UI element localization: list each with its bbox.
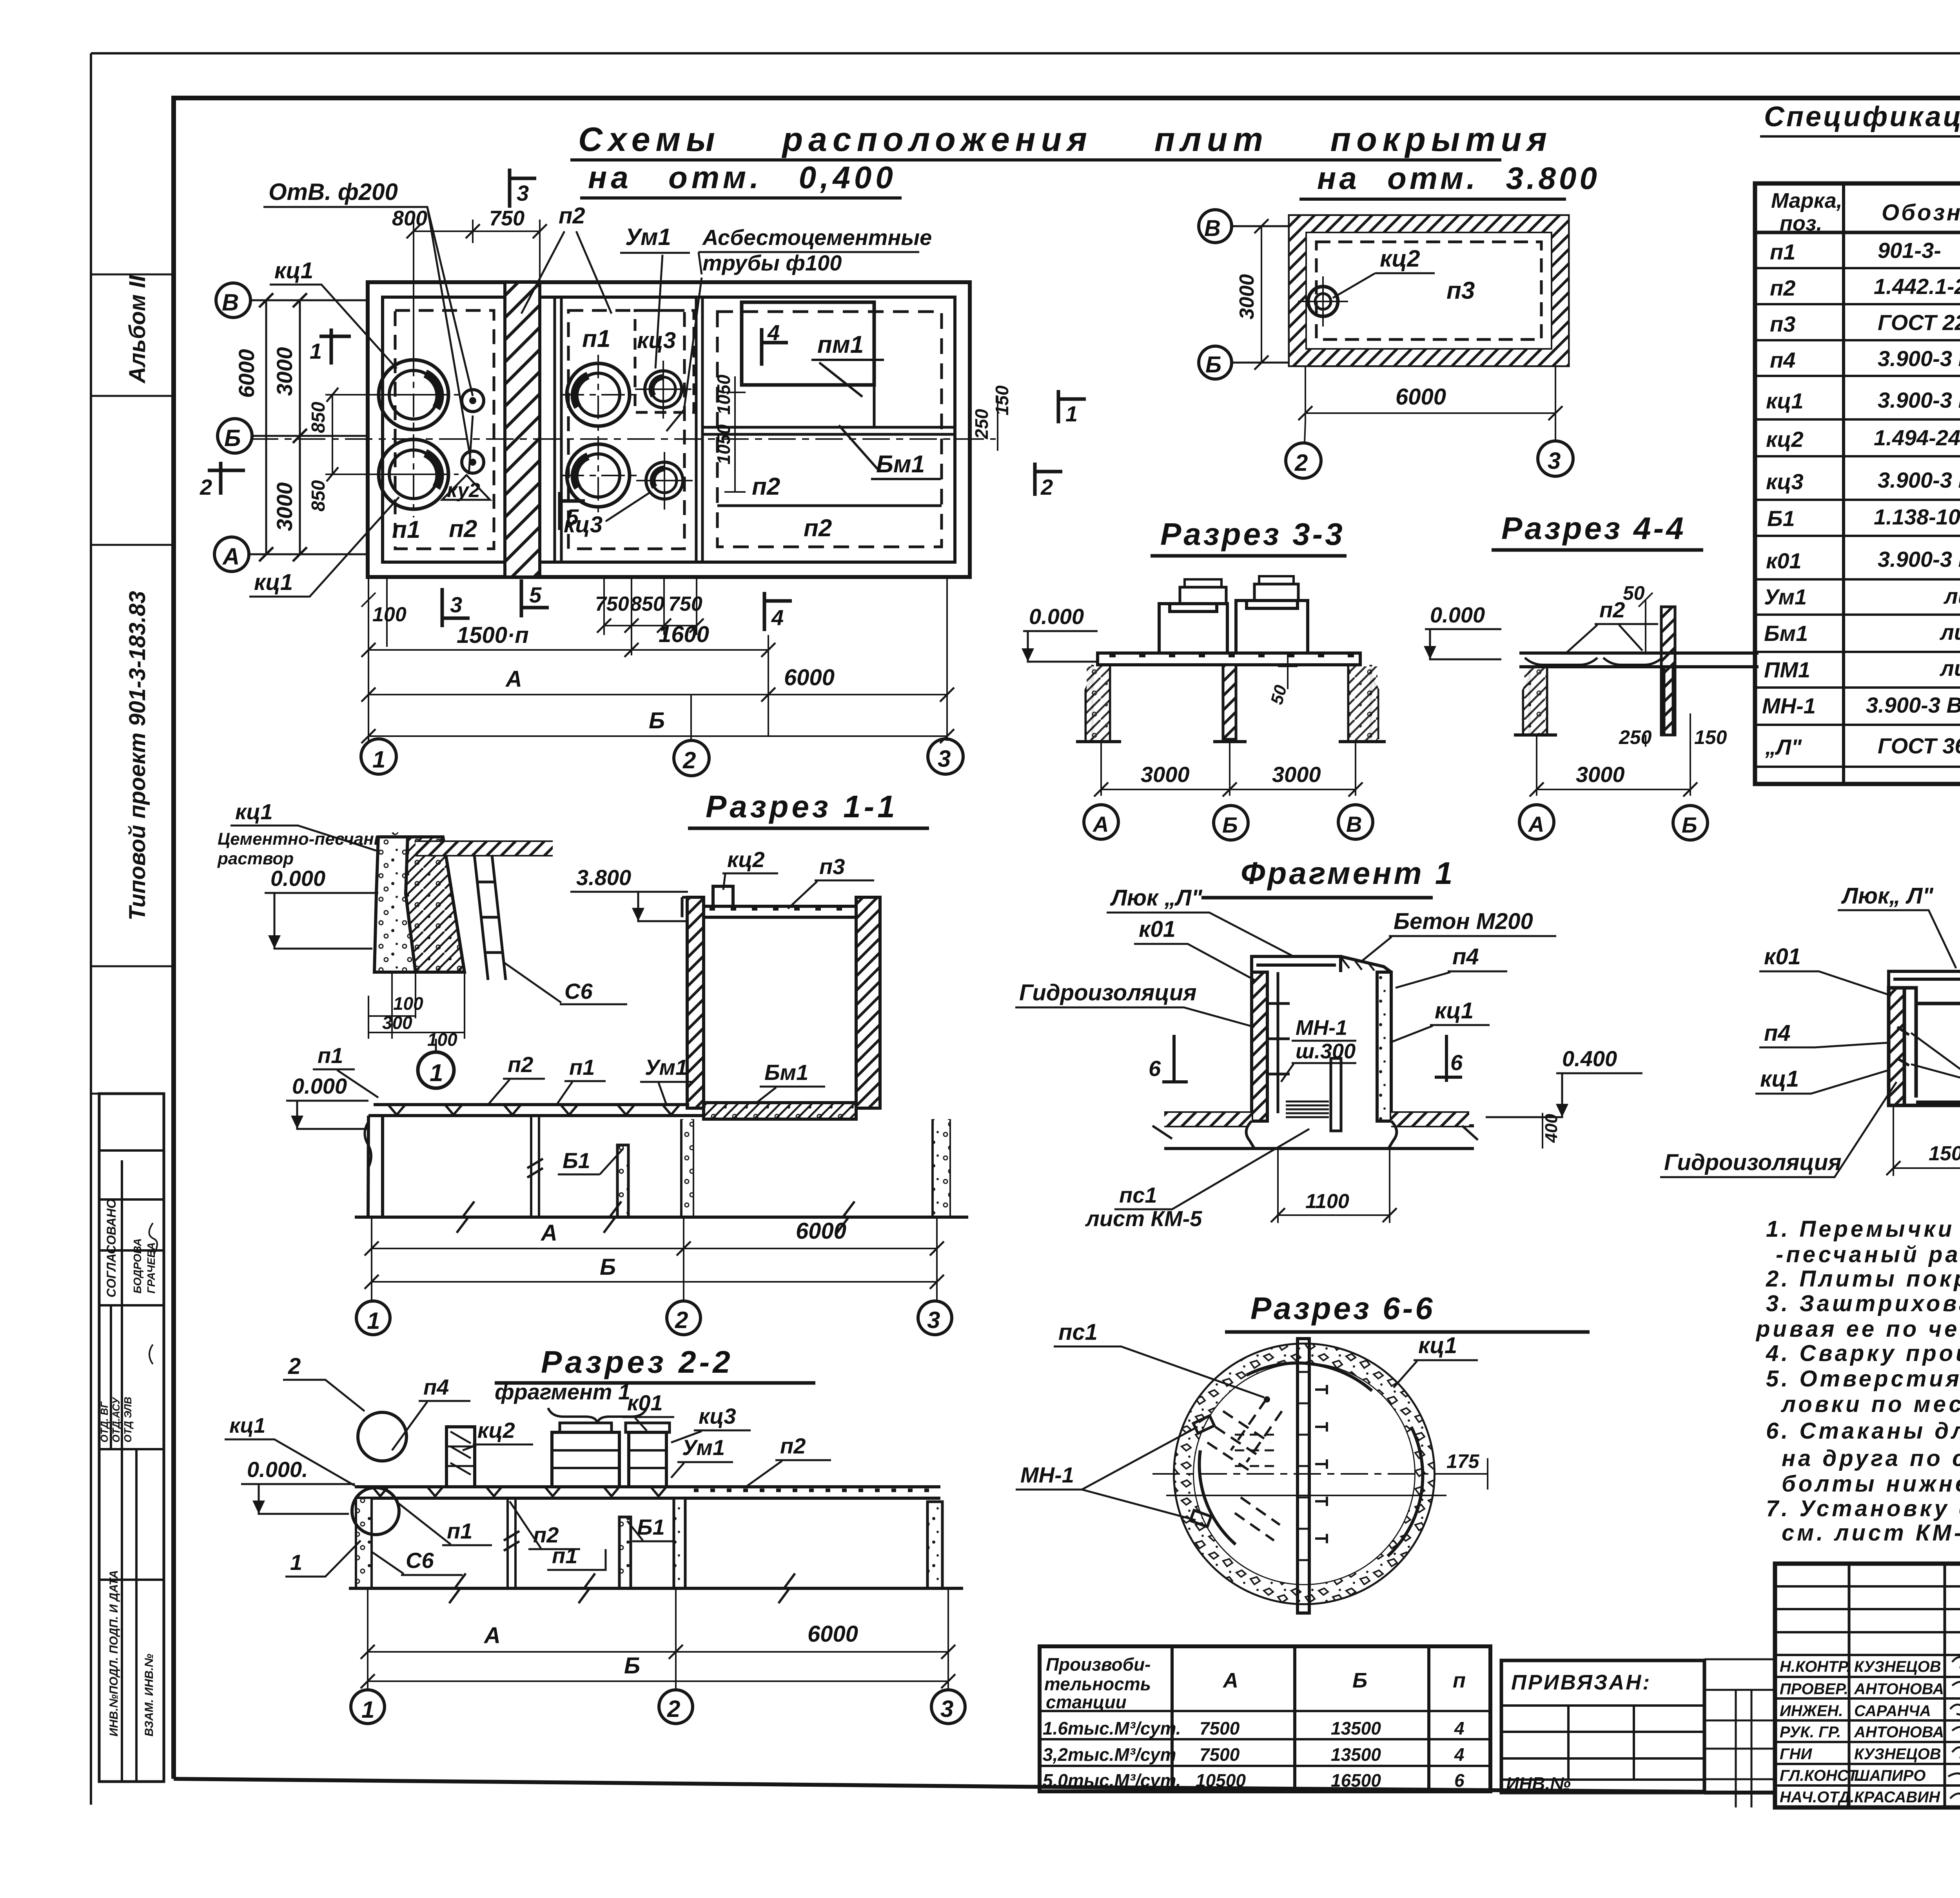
svg-text:ОТД. ВГ: ОТД. ВГ — [98, 1401, 110, 1443]
svg-text:4: 4 — [1454, 1718, 1465, 1738]
svg-text:13500: 13500 — [1331, 1744, 1381, 1765]
svg-text:СОГЛАСОВАНО: СОГЛАСОВАНО — [104, 1199, 118, 1297]
svg-text:3: 3 — [1548, 448, 1561, 474]
svg-text:Б1: Б1 — [637, 1515, 665, 1539]
dim row А 6000 — [368, 694, 947, 695]
svg-text:250: 250 — [1619, 726, 1652, 748]
top dim 800 750 — [414, 220, 540, 361]
section marks 6-6 — [1162, 1035, 1188, 1082]
svg-text:7500: 7500 — [1200, 1744, 1240, 1765]
svg-text:КУЗНЕЦОВ: КУЗНЕЦОВ — [1854, 1658, 1941, 1675]
svg-text:С6: С6 — [406, 1548, 434, 1573]
svg-text:С6: С6 — [564, 979, 593, 1003]
svg-text:6: 6 — [1450, 1050, 1463, 1075]
svg-text:Б: Б — [1222, 813, 1238, 837]
vertical ladder bar — [1298, 1339, 1309, 1613]
wall right hatched — [1661, 607, 1675, 735]
margin division ticks — [91, 274, 174, 1094]
svg-text:850: 850 — [308, 480, 329, 512]
column Б — [1223, 665, 1236, 739]
svg-text:1: 1 — [372, 746, 385, 773]
deflector right pair — [629, 1432, 666, 1487]
section flag 3 bottom — [442, 588, 470, 627]
svg-text:раствор: раствор — [217, 849, 294, 868]
wall right of mid compartment — [696, 297, 702, 562]
svg-text:на отм. 3.800: на отм. 3.800 — [1317, 161, 1600, 196]
outer ring — [1175, 1345, 1434, 1603]
concrete wall with stipple — [374, 837, 416, 972]
svg-text:Б: Б — [1682, 813, 1697, 837]
КЦ1 ring mid bottom — [567, 444, 630, 507]
svg-text:3: 3 — [517, 181, 529, 205]
svg-text:800: 800 — [392, 207, 427, 230]
svg-text:3: 3 — [927, 1307, 940, 1333]
svg-text:Асбестоцементные: Асбестоцементные — [702, 225, 932, 250]
svg-text:Фрагмент 1: Фрагмент 1 — [1241, 856, 1455, 891]
manhole detail: walls — [1889, 988, 1904, 1105]
dim row 3000 — [1537, 735, 1690, 796]
svg-text:кц3: кц3 — [699, 1404, 736, 1428]
svg-text:150: 150 — [992, 385, 1012, 416]
svg-text:3: 3 — [450, 592, 462, 617]
dims 100 300 100 under node — [368, 972, 465, 1039]
axis circle Б — [218, 419, 252, 453]
ground line — [349, 1587, 963, 1590]
deflector mid with cap — [552, 1432, 619, 1487]
dim rows — [368, 1588, 948, 1690]
section flag 4 bottom — [764, 592, 792, 631]
svg-text:2: 2 — [1040, 475, 1053, 499]
svg-text:Б: Б — [1205, 352, 1221, 377]
svg-text:2: 2 — [288, 1354, 301, 1379]
vertical dim line 6000 — [265, 300, 267, 554]
svg-text:6: 6 — [1149, 1056, 1161, 1081]
svg-text:ГОСТ 3634-79: ГОСТ 3634-79 — [1878, 733, 1960, 758]
КЦ3 stakan top — [645, 371, 682, 408]
svg-text:750: 750 — [595, 593, 629, 615]
svg-text:6: 6 — [1454, 1770, 1465, 1791]
svg-text:0.400: 0.400 — [1562, 1046, 1617, 1071]
section flag 5 bottom — [521, 579, 549, 617]
column В — [1348, 665, 1378, 742]
П1 slab top — [416, 842, 553, 855]
dim 175 — [1435, 1458, 1488, 1490]
svg-text:1600: 1600 — [659, 622, 709, 647]
dims 750 850 750 — [604, 577, 697, 635]
dashed plate outline left compartment — [395, 310, 494, 549]
svg-text:КУЗНЕЦОВ: КУЗНЕЦОВ — [1854, 1746, 1941, 1763]
signatures squiggles — [1948, 1657, 1960, 1801]
svg-text:1: 1 — [430, 1060, 443, 1087]
svg-text:п4: п4 — [1452, 944, 1479, 969]
ladder C6 vertical rails — [474, 855, 506, 980]
svg-text:п4: п4 — [1764, 1020, 1791, 1046]
svg-text:лист 5: лист 5 — [1943, 584, 1960, 608]
svg-text:5: 5 — [566, 504, 579, 529]
svg-text:п3: п3 — [819, 854, 845, 879]
люк cover plates — [1252, 956, 1341, 972]
Бм1 beam double line — [702, 427, 955, 434]
svg-text:100: 100 — [372, 603, 407, 626]
svg-text:3000: 3000 — [1236, 274, 1258, 319]
svg-text:п2: п2 — [752, 473, 780, 500]
svg-text:10500: 10500 — [1196, 1770, 1246, 1791]
tank roof slab П3 — [704, 906, 856, 917]
svg-text:2. Плиты покрытия приварить к: 2. Плиты покрытия приварить к закладным … — [1766, 1266, 1960, 1292]
axis circle 2 — [1286, 443, 1321, 478]
rows col1 — [1762, 240, 1816, 759]
svg-text:Обозначение: Обозначение — [1882, 200, 1960, 225]
ground line — [355, 1216, 968, 1219]
svg-text:МН-1: МН-1 — [1762, 693, 1816, 718]
main slab — [355, 1487, 940, 1498]
svg-text:„Л": „Л" — [1765, 735, 1802, 759]
svg-text:3: 3 — [940, 1696, 953, 1722]
svg-text:3000: 3000 — [272, 347, 297, 396]
svg-text:Цементно-песчаный: Цементно-песчаный — [218, 829, 399, 849]
vertical dim line 3000 3000 — [299, 300, 301, 554]
dim 3000 vertical — [1261, 226, 1262, 363]
svg-text:1050: 1050 — [713, 374, 734, 415]
svg-text:ИНЖЕН.: ИНЖЕН. — [1780, 1702, 1843, 1720]
svg-text:Разрез 4-4: Разрез 4-4 — [1501, 511, 1686, 546]
svg-text:п2: п2 — [804, 515, 832, 542]
svg-text:250: 250 — [971, 409, 992, 439]
svg-text:А: А — [540, 1220, 557, 1246]
svg-text:1050: 1050 — [713, 424, 734, 465]
svg-text:3000: 3000 — [272, 482, 297, 531]
svg-text:6000: 6000 — [796, 1218, 846, 1244]
dashed stairs left — [1207, 1411, 1270, 1474]
svg-text:Типовой проект 901-3-183.83: Типовой проект 901-3-183.83 — [125, 591, 150, 921]
svg-text:к01: к01 — [1766, 548, 1802, 573]
svg-text:МН-1: МН-1 — [1296, 1016, 1347, 1040]
rubble in ring — [1184, 1354, 1425, 1594]
svg-text:В: В — [1346, 812, 1362, 836]
svg-text:ПМ1: ПМ1 — [1764, 657, 1810, 682]
svg-text:кц1: кц1 — [229, 1414, 265, 1437]
svg-text:ОТД.АСУ: ОТД.АСУ — [110, 1397, 122, 1443]
svg-text:1. Перемычки и опорные кольца: 1. Перемычки и опорные кольца укладывать… — [1766, 1216, 1960, 1242]
axis circle 3 — [1538, 441, 1573, 476]
plan hatched border — [1290, 216, 1568, 365]
svg-text:кц2: кц2 — [1766, 427, 1804, 452]
svg-text:1: 1 — [290, 1550, 302, 1575]
dim 50 slab with arrow — [1278, 653, 1298, 689]
svg-text:901-3-: 901-3- — [1878, 238, 1941, 263]
svg-text:Б: Б — [600, 1254, 616, 1280]
stair stack — [1286, 1101, 1329, 1117]
axis circles А Б — [1519, 805, 1554, 839]
svg-text:750: 750 — [668, 593, 702, 615]
svg-text:В: В — [222, 289, 239, 316]
svg-text:пм1: пм1 — [817, 331, 864, 358]
svg-text:лист 12: лист 12 — [1939, 656, 1960, 680]
svg-text:п4: п4 — [1770, 348, 1795, 372]
wall below right — [1664, 667, 1673, 735]
svg-text:тельность: тельность — [1044, 1674, 1151, 1694]
axis circles — [351, 1690, 385, 1724]
slab with plates П2 — [1519, 653, 1759, 667]
svg-text:кц2: кц2 — [477, 1418, 515, 1443]
svg-text:Разрез 1-1: Разрез 1-1 — [706, 789, 898, 824]
svg-text:п2: п2 — [449, 515, 477, 543]
svg-text:ГЛ.КОНСТ.: ГЛ.КОНСТ. — [1780, 1767, 1861, 1784]
svg-text:МН-1: МН-1 — [1020, 1463, 1074, 1487]
КЦ2 box on roof — [713, 886, 733, 906]
svg-text:на отм. 0,400: на отм. 0,400 — [588, 160, 897, 195]
dashed plate outline right area — [717, 312, 942, 547]
svg-text:ВЗАМ. ИНВ.№: ВЗАМ. ИНВ.№ — [143, 1654, 156, 1737]
dashed box КЦ3 upper — [635, 310, 694, 412]
beam Бм1 band — [704, 1103, 856, 1119]
КЦ2 target circle — [1308, 287, 1338, 316]
svg-text:2: 2 — [675, 1307, 688, 1333]
axis circles 1 2 3 — [356, 1301, 390, 1335]
svg-text:0.000: 0.000 — [270, 866, 325, 891]
svg-text:А: А — [1222, 1669, 1238, 1692]
section flag 1 top left — [319, 328, 351, 365]
svg-text:1: 1 — [361, 1697, 374, 1723]
svg-text:п2: п2 — [780, 1433, 806, 1458]
svg-text:5.0тыс.М³/сут.: 5.0тыс.М³/сут. — [1043, 1770, 1181, 1791]
svg-text:см. лист КМ-5.: см. лист КМ-5. — [1782, 1520, 1960, 1546]
svg-text:кц1: кц1 — [1435, 998, 1474, 1023]
svg-text:6000: 6000 — [234, 349, 259, 398]
svg-text:6000: 6000 — [784, 665, 835, 690]
break marks — [508, 1498, 515, 1588]
svg-text:13500: 13500 — [1331, 1718, 1381, 1738]
svg-text:лист 12: лист 12 — [1939, 620, 1960, 644]
svg-text:АНТОНОВА: АНТОНОВА — [1854, 1680, 1944, 1698]
dim 1100 — [1278, 1149, 1390, 1223]
svg-text:КРАСАВИН: КРАСАВИН — [1854, 1789, 1940, 1806]
svg-text:ШАПИРО: ШАПИРО — [1854, 1767, 1926, 1784]
axis circle В — [1199, 210, 1232, 243]
svg-text:к01: к01 — [1139, 916, 1176, 942]
svg-text:3.800: 3.800 — [576, 865, 631, 890]
svg-text:В: В — [1204, 216, 1221, 241]
svg-text:16500: 16500 — [1331, 1770, 1381, 1791]
inner circle arcs — [1247, 1363, 1372, 1391]
svg-text:трубы ф100: трубы ф100 — [702, 250, 842, 275]
svg-text:п1: п1 — [569, 1055, 595, 1080]
svg-text:Б: Б — [649, 708, 665, 733]
svg-text:ИНВ.№ПОДЛ. ПОДП. И ДАТА: ИНВ.№ПОДЛ. ПОДП. И ДАТА — [107, 1570, 120, 1737]
svg-text:1.6тыс.М³/сут.: 1.6тыс.М³/сут. — [1043, 1718, 1181, 1738]
svg-text:Гидроизоляция: Гидроизоляция — [1019, 980, 1197, 1005]
svg-text:3.900-3 Вып.7: 3.900-3 Вып.7 — [1878, 346, 1960, 371]
svg-text:ПРИВЯЗАН:: ПРИВЯЗАН: — [1511, 1671, 1651, 1694]
signatures in left stack — [149, 1223, 157, 1364]
svg-text:фрагмент 1: фрагмент 1 — [495, 1379, 630, 1404]
svg-text:1100: 1100 — [1305, 1190, 1349, 1213]
svg-text:кц1: кц1 — [1766, 388, 1804, 413]
section flag 2 right — [1035, 463, 1062, 496]
svg-text:1: 1 — [310, 339, 322, 363]
svg-text:Б: Б — [224, 425, 241, 451]
piers — [619, 1517, 631, 1588]
svg-text:7. Установку стремянки С6 и: 7. Установку стремянки С6 и площадки ПС1 — [1766, 1496, 1960, 1521]
svg-text:Бм1: Бм1 — [1764, 621, 1808, 646]
svg-text:п2: п2 — [508, 1052, 533, 1077]
svg-text:3,2тыс.М³/сут: 3,2тыс.М³/сут — [1043, 1744, 1176, 1765]
column A — [1086, 665, 1110, 742]
bottom edge — [1889, 1102, 1960, 1105]
wall between strip and mid compartment — [555, 297, 561, 562]
svg-text:п1: п1 — [318, 1043, 343, 1068]
svg-text:п1: п1 — [447, 1519, 472, 1543]
tank walls right part — [687, 897, 704, 1108]
svg-text:ловки по месту, не нарушая реб: ловки по месту, не нарушая ребер. — [1780, 1392, 1960, 1417]
lower slab line — [1164, 1147, 1474, 1150]
svg-text:Б1: Б1 — [563, 1148, 590, 1173]
dim 400 right rotated — [1542, 1113, 1543, 1149]
rungs right — [1315, 1385, 1327, 1543]
centerlines — [1152, 1473, 1466, 1475]
svg-text:2: 2 — [200, 475, 212, 499]
horizontal partition right area — [717, 504, 942, 507]
svg-text:пс1: пс1 — [1058, 1319, 1098, 1345]
dashed plate outline — [1316, 242, 1541, 339]
svg-text:п1: п1 — [582, 325, 610, 352]
dashed plate outline mid compartment — [568, 310, 684, 549]
svg-text:0.000.: 0.000. — [247, 1457, 308, 1482]
svg-text:АНТОНОВА: АНТОНОВА — [1854, 1724, 1944, 1741]
svg-text:300: 300 — [382, 1013, 412, 1033]
svg-text:1: 1 — [367, 1308, 380, 1334]
svg-text:САРАНЧА: САРАНЧА — [1854, 1702, 1931, 1720]
svg-text:п2: п2 — [1770, 276, 1795, 300]
svg-text:100: 100 — [427, 1029, 457, 1050]
dim row 3000 3000 — [1101, 742, 1356, 796]
low tank slab with plate joints — [368, 1105, 704, 1116]
dim 50 at wall top — [1639, 593, 1653, 653]
svg-text:850: 850 — [308, 402, 329, 433]
svg-text:Разрез 2-2: Разрез 2-2 — [541, 1345, 733, 1379]
svg-text:ГНИ: ГНИ — [1780, 1746, 1812, 1763]
svg-text:РУК. ГР.: РУК. ГР. — [1780, 1724, 1841, 1741]
svg-text:п: п — [1453, 1669, 1466, 1692]
centerlines left circles — [372, 353, 459, 517]
rows col2 обозначение — [1866, 238, 1960, 758]
dims 250 150 — [1646, 713, 1690, 747]
beam mid line to right wall — [873, 385, 876, 427]
svg-text:ОТД ЭЛВ: ОТД ЭЛВ — [122, 1397, 134, 1443]
floor slab band — [1164, 1113, 1474, 1126]
svg-text:7500: 7500 — [1200, 1718, 1240, 1738]
КУ2 small circle top — [462, 390, 484, 412]
svg-text:1.442.1-2 Вып.1: 1.442.1-2 Вып.1 — [1874, 274, 1960, 299]
svg-text:Бетон М200: Бетон М200 — [1394, 909, 1533, 934]
bottom dim 100 — [386, 577, 388, 647]
svg-text:кц1: кц1 — [1760, 1066, 1799, 1092]
svg-text:А: А — [483, 1623, 501, 1648]
svg-text:5. Отверстия ф 200 в плите вып: 5. Отверстия ф 200 в плите выполнить мет… — [1766, 1366, 1960, 1392]
svg-text:Разрез 3-3: Разрез 3-3 — [1160, 517, 1345, 552]
svg-text:кц1: кц1 — [254, 570, 293, 595]
svg-text:кц1: кц1 — [1418, 1333, 1457, 1358]
svg-text:Разрез 6-6: Разрез 6-6 — [1250, 1291, 1435, 1326]
svg-text:1.494-24 Вып.1: 1.494-24 Вып.1 — [1874, 425, 1960, 450]
dim 6000 bottom — [1305, 365, 1555, 421]
deflector box left — [1159, 604, 1227, 653]
svg-text:к01: к01 — [627, 1390, 663, 1415]
svg-text:6000: 6000 — [808, 1621, 858, 1647]
svg-text:150: 150 — [1694, 726, 1727, 748]
svg-text:А: А — [222, 543, 240, 570]
dim row Б — [372, 1281, 937, 1283]
axis circle 2 — [674, 740, 709, 776]
svg-text:ш.300: ш.300 — [1296, 1040, 1356, 1063]
walls below — [368, 1116, 383, 1217]
manhole right wall — [1377, 972, 1391, 1121]
ladder bar inside — [1331, 1058, 1341, 1131]
svg-text:Бм1: Бм1 — [876, 451, 925, 478]
svg-text:3.900-3 Вып.7: 3.900-3 Вып.7 — [1878, 547, 1960, 572]
axis verticals to circles — [368, 577, 947, 735]
svg-text:Марка,: Марка, — [1771, 189, 1842, 212]
svg-text:3.900-3 Вып.7: 3.900-3 Вып.7 — [1878, 468, 1960, 492]
svg-text:станции: станции — [1046, 1692, 1127, 1712]
detail circle 1 — [418, 1052, 454, 1088]
svg-text:Люк„ Л": Люк„ Л" — [1841, 883, 1934, 909]
svg-text:Схемы расположения плит: Схемы расположения плит покрытия — [578, 121, 1552, 158]
svg-text:ПРОВЕР.: ПРОВЕР. — [1780, 1680, 1848, 1698]
break marks in middle — [531, 1116, 539, 1217]
svg-text:3. Заштрихованную плиту устано: 3. Заштрихованную плиту установить в пер… — [1766, 1291, 1960, 1316]
centerlines mid circles — [561, 355, 637, 514]
svg-text:1500·п: 1500·п — [457, 622, 529, 648]
svg-text:ривая ее по четырем углам, кат: ривая ее по четырем углам, катет шва 8мм… — [1755, 1316, 1960, 1342]
svg-text:Б1: Б1 — [1767, 506, 1795, 531]
svg-text:0.000: 0.000 — [292, 1074, 347, 1098]
svg-text:175: 175 — [1446, 1450, 1480, 1472]
svg-text:п2: п2 — [559, 203, 585, 229]
column A — [1523, 667, 1547, 735]
svg-text:пс1: пс1 — [1119, 1183, 1157, 1207]
svg-text:кц2: кц2 — [1380, 245, 1420, 272]
svg-text:п3: п3 — [1446, 277, 1475, 304]
svg-text:А: А — [505, 666, 522, 692]
svg-text:к01: к01 — [1764, 944, 1801, 969]
svg-text:850: 850 — [630, 593, 664, 615]
svg-text:Произвоби-: Произвоби- — [1046, 1654, 1151, 1675]
axis circles А Б В — [1084, 805, 1118, 839]
svg-text:6. Стаканы для дефлекторов уст: 6. Стаканы для дефлекторов устанавливают… — [1766, 1418, 1960, 1444]
svg-text:кц3: кц3 — [1766, 469, 1804, 494]
manhole left wall — [1252, 972, 1267, 1121]
dim row Б — [368, 735, 947, 737]
svg-text:400: 400 — [1542, 1114, 1561, 1143]
svg-text:ИНВ.№: ИНВ.№ — [1506, 1773, 1571, 1794]
svg-text:4. Сварку производить электрод: 4. Сварку производить электродами Э42 ГО… — [1766, 1341, 1960, 1366]
svg-text:поз.: поз. — [1780, 212, 1822, 235]
lower left stack of boxes — [99, 1094, 164, 1782]
svg-text:Ум1: Ум1 — [645, 1055, 688, 1080]
svg-text:3.900-3 Вып.7 4,2: 3.900-3 Вып.7 4,2 — [1866, 693, 1960, 717]
svg-text:Ум1: Ум1 — [625, 224, 671, 250]
svg-text:50: 50 — [1623, 582, 1645, 604]
svg-text:0.000: 0.000 — [1029, 604, 1084, 629]
section flag 5 in plan — [560, 492, 585, 530]
svg-text:кц1: кц1 — [235, 799, 273, 824]
КЦ3 stakan bottom — [646, 462, 683, 499]
dim 850 850 vertical near circles — [325, 395, 414, 474]
svg-text:3000: 3000 — [1141, 762, 1190, 787]
svg-text:НАЧ.ОТД.: НАЧ.ОТД. — [1780, 1789, 1855, 1806]
svg-text:3.900-3 Вып.7: 3.900-3 Вып.7 — [1878, 388, 1960, 412]
